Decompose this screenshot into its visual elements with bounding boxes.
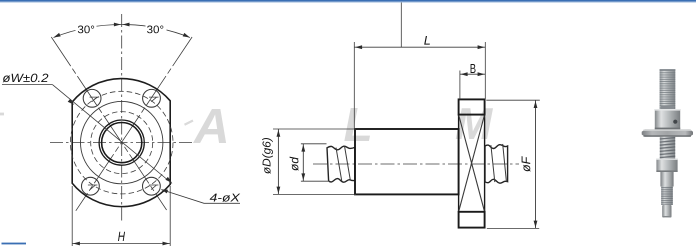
- front view: bore outer circle: [99, 120, 144, 165]
- blue bottom-left border fragment: [2, 243, 27, 245]
- label H: [118, 232, 125, 241]
- vertical reference line above L dimension: [400, 3, 402, 48]
- label od rotated: [290, 157, 299, 171]
- front view: top-left bolt hole: [83, 89, 101, 107]
- 30 deg label right: [147, 26, 163, 34]
- side view: flange mid section: [459, 115, 485, 212]
- front view: bolt circle (dashed): [70, 91, 173, 194]
- side view: flange cross lines: [459, 115, 485, 212]
- photo: nut body: [655, 109, 680, 129]
- front view: bottom-right bolt hole: [143, 177, 161, 195]
- B dimension extension line: [459, 71, 461, 100]
- label oF rotated: [522, 156, 531, 172]
- H dimension extension lines: [72, 186, 170, 246]
- photo: end pin: [662, 205, 671, 218]
- 30 deg dimension arc: [54, 25, 190, 38]
- oD(g6) extension lines: [273, 129, 356, 194]
- 30 deg label left: [78, 26, 94, 34]
- watermark letter M: [456, 108, 493, 139]
- side view: flange bottom boss: [459, 212, 485, 228]
- oF extension lines: [486, 100, 540, 228]
- photo: top threaded screw section: [660, 69, 676, 109]
- front view: nut body circle: [81, 101, 163, 183]
- watermark letter fragment before A: [184, 120, 194, 126]
- front view: horizontal centerline: [50, 142, 194, 144]
- side view: right screw end outline: [485, 145, 508, 184]
- H dimension line: [72, 243, 170, 245]
- watermark letter fragment at left edge: [0, 113, 4, 116]
- front view: top-right bolt hole: [143, 89, 161, 107]
- label 4-oX: [210, 194, 241, 202]
- photo: smooth shaft section: [660, 172, 673, 187]
- side view: left screw end outline: [327, 146, 355, 182]
- photo: wrench flat block: [656, 159, 677, 173]
- photo: grease hole on nut: [673, 120, 677, 124]
- side view: nut body white fill: [355, 129, 459, 194]
- label oW plus-minus 0.2: [3, 74, 49, 83]
- front view: bolt-hole diagonal centerline top-left to bottom-right: [51, 37, 166, 210]
- dimension leader line for bolt circle diameter: [52, 85, 172, 184]
- front view: screw root circle (dashed): [91, 112, 153, 174]
- photo: fine threaded end: [661, 187, 673, 206]
- dimension leader 4-oX to bolt hole: [162, 190, 241, 204]
- front view: flange outline with side flats: [72, 79, 170, 207]
- od dimension line: [302, 144, 304, 181]
- side view: right screw helix lines: [491, 144, 507, 182]
- oD(g6) dimension line: [277, 129, 279, 194]
- side view: flange white fill: [459, 99, 485, 227]
- label B: [471, 64, 476, 73]
- od extension lines: [301, 144, 330, 181]
- side view: flange top boss: [459, 99, 485, 114]
- side view: horizontal centerline: [313, 163, 519, 165]
- watermark letter L: [344, 108, 370, 141]
- label oD(g6) rotated: [262, 138, 273, 174]
- front view: vertical centerline: [121, 14, 123, 223]
- L dimension extension lines: [354, 42, 485, 129]
- front view: bottom-left bolt hole: [82, 177, 100, 195]
- photo: ball screw thread below flange: [660, 137, 675, 159]
- label L: [424, 36, 430, 45]
- oF dimension line: [535, 100, 537, 228]
- front view: bolt-hole diagonal centerline top-right to bottom-left: [76, 37, 192, 211]
- front view: bore inner circle: [102, 123, 142, 163]
- side view: nut body: [355, 129, 459, 194]
- photo: flange disc: [642, 129, 693, 136]
- watermark letter A: [193, 109, 226, 143]
- B dimension line: [460, 73, 485, 75]
- L dimension line: [354, 46, 485, 48]
- photo: ball screw product image: [642, 69, 693, 218]
- side view: left screw helix lines: [336, 147, 350, 182]
- blue top border line: [0, 0, 696, 2]
